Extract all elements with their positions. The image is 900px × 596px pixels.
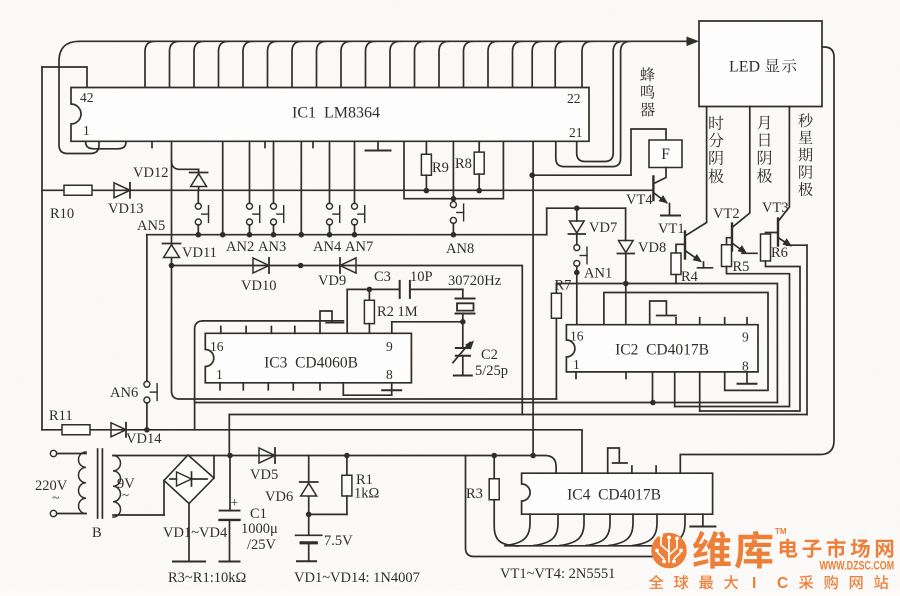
ground battery xyxy=(297,560,316,562)
label VD12 xyxy=(133,165,168,181)
IC3 pin 1 label xyxy=(216,367,223,382)
watermark logo 维库电子市场网 xyxy=(649,527,894,592)
LED display box xyxy=(699,21,822,107)
IC4 reset hook xyxy=(608,448,627,473)
label R9 xyxy=(432,160,449,176)
label 1k xyxy=(354,486,380,502)
IC2 bottom stubs xyxy=(576,372,626,379)
label AN7 xyxy=(345,239,373,255)
wire inner U-loop below IC1 pin 1 xyxy=(86,141,126,149)
wire R6 wrap xyxy=(700,261,800,411)
wire LED cathode 3 to VT3 xyxy=(778,107,789,222)
diode VD8 xyxy=(617,208,634,325)
transformer primary coil xyxy=(79,452,87,514)
wire bottom bus xyxy=(466,456,654,557)
label R5 xyxy=(733,259,750,275)
IC4 label xyxy=(567,487,661,504)
resistor R9 xyxy=(421,141,431,190)
wire right wrap U-loops from IC1 bottom to top bus xyxy=(556,41,631,166)
transformer core xyxy=(98,449,103,518)
resistor R6 xyxy=(761,234,771,261)
IC IC4 CD4017B body xyxy=(522,473,713,514)
wire left rail vertical xyxy=(41,67,43,430)
battery 7.5V xyxy=(296,514,322,560)
ground bridge xyxy=(173,561,205,563)
label VT4 xyxy=(626,192,653,208)
IC2 pin 9 label xyxy=(742,330,749,345)
diode VD11 xyxy=(163,244,181,269)
bridge rectifier VD1-VD4 xyxy=(164,455,214,562)
capacitor C2 variable xyxy=(453,322,474,376)
wire secondary bottom xyxy=(113,514,164,516)
label AN2 xyxy=(226,239,254,255)
label VD7 xyxy=(589,220,617,236)
label R4 xyxy=(681,269,699,285)
IC3 bottom stubs xyxy=(220,383,320,390)
label C1 xyxy=(250,506,267,522)
label R11 xyxy=(49,408,73,424)
label AN6 xyxy=(110,385,138,401)
wire buzzer feed xyxy=(529,172,631,178)
diode VD7 xyxy=(568,208,585,245)
label 1000u xyxy=(241,521,278,537)
switch AN3 xyxy=(271,141,284,234)
IC2 pin 1 label xyxy=(573,357,580,372)
wire battery rail line xyxy=(229,415,807,456)
IC1 bottom stub pins xyxy=(152,141,313,147)
label VD13 xyxy=(108,201,143,217)
IC3 reset hook xyxy=(320,311,343,333)
ground VT4 xyxy=(661,215,680,217)
label VT1 xyxy=(658,221,685,237)
diode VD5 xyxy=(259,448,275,463)
wire plain column 1 xyxy=(222,141,224,234)
label 220V xyxy=(35,478,68,506)
switch AN5 xyxy=(195,190,208,237)
transistor VT1 xyxy=(676,232,712,268)
diode VD14 xyxy=(111,423,126,437)
wire top bus line to LED display with arrow xyxy=(59,37,699,154)
pin 1 label xyxy=(83,123,90,138)
label 时分阴极 xyxy=(708,116,723,184)
resistor R11 xyxy=(62,425,90,435)
label R2 1M xyxy=(377,304,418,320)
label 月日阴极 xyxy=(757,116,772,183)
wire LED cathode 2 to VT2 xyxy=(732,107,750,228)
LED display label xyxy=(729,59,796,76)
resistor R10 xyxy=(64,185,92,195)
label 秒星期阴极 xyxy=(798,113,813,196)
label VT3 xyxy=(762,200,789,216)
label R3~R1 xyxy=(168,570,246,586)
label VD8 xyxy=(638,240,666,256)
label 30720Hz xyxy=(448,273,502,289)
switch AN6 xyxy=(144,235,157,430)
label R7 xyxy=(555,278,572,294)
wire long line to R4 wrap xyxy=(195,402,778,404)
label VD1~VD4 xyxy=(163,525,228,541)
label C2 xyxy=(481,347,498,363)
label 5/25p xyxy=(475,363,508,379)
label AN5 xyxy=(137,218,165,234)
IC IC2 CD4017B body xyxy=(566,325,758,372)
wire buzzer top loop xyxy=(631,129,666,175)
switch AN1 xyxy=(574,245,587,325)
wire plain column 2 xyxy=(300,141,302,234)
IC3 label xyxy=(264,355,358,372)
wire long column from IC1 xyxy=(532,141,534,455)
wire R2 top node xyxy=(347,287,400,334)
wire R4 line xyxy=(556,284,777,403)
IC2 top stubs xyxy=(676,318,747,325)
wire VDD line R11 xyxy=(42,427,582,473)
wire VD12 column xyxy=(171,141,173,243)
transistor VT2 xyxy=(727,224,758,254)
IC3 top stubs xyxy=(221,327,295,334)
label VD6 xyxy=(265,489,293,505)
IC3 pin 16 label xyxy=(210,339,224,354)
ground under IC1 xyxy=(366,141,391,150)
transistor VT4 xyxy=(653,168,669,215)
label R3 xyxy=(466,486,483,502)
wire R5 wrap to IC2 area xyxy=(675,267,790,407)
wire base line R10-VT4 xyxy=(42,188,652,194)
label AN4 xyxy=(313,239,342,255)
label C3 xyxy=(374,269,391,285)
label R8 xyxy=(455,156,472,172)
label AN3 xyxy=(258,239,286,255)
IC3 pin 9 label xyxy=(386,339,393,354)
label 10P xyxy=(410,269,433,285)
wire IC1 top pin bus verticals xyxy=(145,41,592,87)
label B xyxy=(92,525,102,541)
label 9V xyxy=(117,476,135,502)
label R10 xyxy=(50,206,74,222)
label VD11 xyxy=(182,245,217,261)
resistor R2 xyxy=(364,289,374,333)
label VD1~VD14 xyxy=(294,570,420,586)
IC2 reset pin hook xyxy=(650,301,676,325)
switch AN7 xyxy=(352,141,365,234)
label R6 xyxy=(771,245,788,261)
wire pin9 node line xyxy=(195,319,466,430)
pin 22 label xyxy=(567,91,581,106)
resistor R1 xyxy=(309,456,352,515)
label VD9 xyxy=(318,273,346,289)
label VD14 xyxy=(126,431,162,447)
IC2 pin 16 label xyxy=(570,329,584,344)
label VD10 xyxy=(241,278,276,294)
label 蜂鸣器 xyxy=(640,67,655,116)
resistor R5 xyxy=(722,245,732,267)
wire IC2 wrap pin to top xyxy=(604,293,768,391)
wire LED right side big wrap to IC4 xyxy=(680,47,834,473)
label AN1 xyxy=(584,266,612,282)
label AN8 xyxy=(446,241,474,257)
label VD5 xyxy=(250,467,278,483)
switch AN8 xyxy=(450,202,463,235)
wire VT3 emitter wrap xyxy=(806,245,808,414)
capacitor C3 xyxy=(400,281,463,298)
resistor R3 xyxy=(489,456,518,547)
wire scan return top xyxy=(547,205,626,234)
wire R4 bottom wrap xyxy=(675,275,677,284)
switch AN4 xyxy=(327,141,340,234)
label 7.5V xyxy=(324,533,353,549)
wire collector row xyxy=(147,232,547,238)
resistor R4 xyxy=(671,253,681,275)
IC2 label xyxy=(615,342,709,359)
diode VD10 xyxy=(253,258,269,273)
wire LED cathode 1 to VT1 xyxy=(685,107,707,237)
transformer primary terminals xyxy=(50,450,86,516)
pin 21 label xyxy=(569,125,583,140)
ground IC4 xyxy=(690,514,715,526)
IC IC1 LM8364 body xyxy=(71,88,589,142)
transistor VT3 xyxy=(766,219,808,247)
IC3 pin 8 label xyxy=(386,367,393,382)
label 25V xyxy=(247,537,277,553)
IC2 pin 8 label xyxy=(742,359,749,374)
transformer secondary coil xyxy=(113,456,121,518)
resistor R7 xyxy=(551,284,561,400)
resistor R8 xyxy=(474,141,484,190)
wire VD10 row xyxy=(172,263,523,415)
wire IC3 pin8 ground link xyxy=(343,383,401,395)
wire IC2 clock from bottom xyxy=(650,372,656,405)
wire VD11 to R7 line xyxy=(172,266,557,400)
diode VD13 xyxy=(114,183,130,198)
IC1 label xyxy=(292,105,380,122)
label VT1~VT4 xyxy=(500,566,615,582)
diode VD12 xyxy=(172,161,208,190)
capacitor C1 xyxy=(220,456,240,562)
wire IC4 bottom sweeps xyxy=(506,514,685,545)
IC IC3 CD4060B body xyxy=(205,333,411,383)
wire feed to IC1 pin 42 xyxy=(42,67,87,88)
IC4 top stubs xyxy=(632,466,656,473)
switch AN2 xyxy=(247,141,260,234)
label VT2 xyxy=(713,206,740,222)
wire main power rail xyxy=(113,453,556,474)
diode VD6 xyxy=(300,456,318,518)
ground C1 xyxy=(220,561,240,563)
wire box under R9 R8 xyxy=(404,141,503,201)
crystal Y1 xyxy=(456,289,475,321)
label R1 xyxy=(356,472,373,488)
buzzer F box xyxy=(649,140,682,168)
ground IC2 pin8 xyxy=(738,372,757,384)
pin 42 label xyxy=(80,90,94,105)
diode VD9 xyxy=(340,258,356,273)
